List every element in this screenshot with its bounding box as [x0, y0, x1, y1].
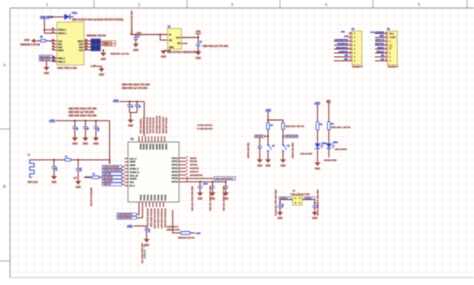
- svg-text:3: 3: [350, 40, 351, 42]
- svg-text:CHIP-EN: CHIP-EN: [103, 174, 111, 176]
- svg-text:+3V3: +3V3: [196, 233, 202, 235]
- svg-text:B6: B6: [85, 39, 87, 41]
- svg-text:SMD-0402 100nF X7R 20%: SMD-0402 100nF X7R 20%: [122, 84, 150, 87]
- svg-text:KEY-EN: KEY-EN: [255, 136, 263, 138]
- svg-text:SMD-0402 100nF X7R 20%: SMD-0402 100nF X7R 20%: [191, 186, 194, 211]
- svg-text:GND: GND: [197, 199, 202, 201]
- svg-text:GND: GND: [312, 218, 317, 220]
- svg-text:VDD33: VDD33: [142, 144, 144, 150]
- svg-text:VDD33: VDD33: [164, 144, 166, 150]
- svg-text:TVS1: TVS1: [72, 13, 78, 15]
- svg-text:GND-PAD2: GND-PAD2: [40, 59, 51, 62]
- svg-text:LED2: LED2: [333, 142, 339, 144]
- svg-text:LYTN8-GPIO13: LYTN8-GPIO13: [197, 129, 213, 131]
- svg-text:GPIO1: GPIO1: [172, 158, 179, 160]
- svg-text:GPIO1: GPIO1: [172, 175, 179, 177]
- svg-text:GPIO1: GPIO1: [172, 168, 179, 170]
- svg-text:GPIO2: GPIO2: [142, 195, 144, 201]
- svg-text:A4: A4: [52, 41, 54, 44]
- svg-text:VDD33: VDD33: [161, 144, 163, 150]
- svg-text:+3V3: +3V3: [196, 31, 202, 33]
- svg-text:GPIO11-PWM-CH2: GPIO11-PWM-CH2: [155, 116, 157, 135]
- svg-text:VBUS_1: VBUS_1: [58, 30, 67, 32]
- svg-text:B6: B6: [85, 42, 87, 44]
- svg-text:XT32K-IN-GPIO16: XT32K-IN-GPIO16: [103, 167, 119, 169]
- svg-text:Header-8: Header-8: [352, 65, 363, 68]
- svg-text:GND: GND: [277, 218, 282, 220]
- svg-text:SMD-0402 1uF X7R 20%: SMD-0402 1uF X7R 20%: [69, 111, 95, 114]
- svg-text:VDDIO-3V3-MAIN: VDDIO-3V3-MAIN: [161, 117, 164, 134]
- svg-text:2: 2: [385, 36, 386, 38]
- svg-text:6: 6: [187, 173, 188, 175]
- svg-text:GND: GND: [76, 187, 81, 189]
- svg-text:XT32K_N: XT32K_N: [130, 172, 140, 174]
- svg-text:SMD0402-10K: SMD0402-10K: [167, 229, 181, 232]
- svg-text:GPIO2: GPIO2: [156, 195, 158, 201]
- svg-text:EN: EN: [169, 40, 172, 42]
- svg-text:XT32K-O: XT32K-O: [280, 198, 289, 200]
- svg-text:VCC: VCC: [390, 33, 395, 35]
- svg-text:A4: A4: [52, 47, 54, 50]
- svg-text:7: 7: [350, 55, 351, 57]
- svg-text:GND: GND: [133, 49, 139, 52]
- svg-text:SMD0402-2.1nH 5%: SMD0402-2.1nH 5%: [89, 188, 92, 207]
- svg-text:GND: GND: [51, 182, 56, 184]
- svg-text:GND: GND: [99, 74, 105, 77]
- svg-text:GND: GND: [169, 47, 174, 49]
- svg-text:DRGB-PWM: DRGB-PWM: [324, 160, 337, 162]
- svg-text:GPIO2: GPIO2: [139, 195, 141, 201]
- svg-text:GND_1: GND_1: [58, 58, 66, 60]
- svg-text:GPIO29-FLASH-SDO: GPIO29-FLASH-SDO: [160, 209, 163, 229]
- svg-text:SMD-0201 1.2K 5%: SMD-0201 1.2K 5%: [331, 127, 351, 129]
- svg-text:8: 8: [350, 59, 351, 61]
- svg-text:GND: GND: [101, 58, 107, 61]
- svg-text:GND: GND: [196, 57, 202, 60]
- svg-text:8: 8: [385, 59, 386, 61]
- svg-text:SMD-0402 22pF C0G 5% NC: SMD-0402 22pF C0G 5% NC: [316, 190, 319, 217]
- svg-text:GPIO14-I2C-SDA: GPIO14-I2C-SDA: [149, 117, 152, 134]
- svg-text:VDD33: VDD33: [148, 144, 150, 150]
- svg-text:VDD33-RF-LNA: VDD33-RF-LNA: [139, 119, 142, 134]
- svg-text:SMD0402 10K 5%: SMD0402 10K 5%: [178, 236, 195, 239]
- svg-text:GPIO12-I2C-SCL: GPIO12-I2C-SCL: [152, 118, 154, 135]
- svg-text:UART-TX: UART-TX: [190, 170, 200, 173]
- svg-text:GPIO15: GPIO15: [190, 165, 198, 167]
- svg-text:GPIO17-ADC1-IN: GPIO17-ADC1-IN: [142, 117, 145, 134]
- svg-text:UART-BOOT: UART-BOOT: [167, 226, 180, 229]
- svg-text:GPIO30-FLASH-SDI: GPIO30-FLASH-SDI: [163, 209, 166, 228]
- svg-text:USB-VBUS-5V-IN-500MA: USB-VBUS-5V-IN-500MA: [130, 11, 133, 35]
- svg-text:GPIO28-FLASH-CLK: GPIO28-FLASH-CLK: [156, 209, 159, 229]
- svg-text:VDD33: VDD33: [145, 144, 147, 150]
- svg-text:3: 3: [187, 163, 188, 165]
- svg-text:VDD33: VDD33: [158, 144, 160, 150]
- svg-text:ANT-2.4G: ANT-2.4G: [28, 181, 39, 184]
- svg-text:6: 6: [385, 51, 386, 53]
- svg-text:USB-DP/GPIO3: USB-DP/GPIO3: [118, 218, 132, 220]
- svg-text:CAL_P: CAL_P: [130, 157, 138, 160]
- svg-text:VDD33: VDD33: [152, 144, 154, 150]
- svg-text:GPIO16-ADC0-IN: GPIO16-ADC0-IN: [145, 117, 148, 134]
- svg-text:VSS: VSS: [130, 182, 135, 184]
- svg-text:SMD-0402 100nF X7R 20%: SMD-0402 100nF X7R 20%: [209, 186, 212, 211]
- svg-text:VBAT-33: VBAT-33: [103, 183, 111, 186]
- svg-text:GND: GND: [280, 166, 285, 168]
- svg-text:VDD33: VDD33: [155, 144, 157, 150]
- svg-text:VBUS_2: VBUS_2: [58, 33, 67, 35]
- svg-text:GPIO3-LED-DRV: GPIO3-LED-DRV: [165, 118, 167, 135]
- svg-text:SMD-0402 100nF X7R 20%: SMD-0402 100nF X7R 20%: [222, 186, 225, 211]
- svg-text:GND_2: GND_2: [58, 61, 66, 63]
- svg-text:LED-R-0603: LED-R-0603: [335, 149, 348, 151]
- svg-text:GPIO20-JTAG-TCK: GPIO20-JTAG-TCK: [146, 209, 149, 228]
- svg-text:GND: GND: [257, 166, 262, 168]
- svg-text:SMD-0402 100nF X7R 20%: SMD-0402 100nF X7R 20%: [69, 107, 97, 110]
- svg-text:SMD-0402 1uF X7R 20%: SMD-0402 1uF X7R 20%: [122, 87, 148, 90]
- svg-text:SMD-KEY-3X4X2: SMD-KEY-3X4X2: [291, 143, 294, 160]
- svg-text:GND: GND: [391, 37, 396, 39]
- svg-text:A: A: [3, 63, 6, 68]
- svg-text:SMD-SOD123 SOD-123 (ESD-PROTEC: SMD-SOD123 SOD-123 (ESD-PROTECT-DIODE): [72, 20, 124, 22]
- svg-text:GPIO1: GPIO1: [172, 165, 179, 167]
- svg-text:LYTN2-GPIO12: LYTN2-GPIO12: [197, 125, 213, 127]
- svg-text:GPIO1: GPIO1: [172, 171, 179, 173]
- svg-text:5: 5: [350, 47, 351, 49]
- svg-text:1: 1: [350, 32, 351, 34]
- svg-text:VBRF: VBRF: [130, 162, 137, 164]
- svg-text:GPIO1: GPIO1: [172, 182, 179, 184]
- svg-text:VDD-RF33: VDD-RF33: [103, 181, 112, 183]
- svg-text:RF-ANT-IN: RF-ANT-IN: [103, 176, 113, 179]
- svg-text:SBU2: SBU2: [77, 41, 83, 43]
- svg-text:Header-8: Header-8: [388, 65, 399, 68]
- svg-text:GPIO2: GPIO2: [153, 195, 155, 201]
- svg-text:GPIO10-PWM-CH1: GPIO10-PWM-CH1: [158, 116, 160, 135]
- svg-text:SMD-0402 100nF X7R 20%: SMD-0402 100nF X7R 20%: [69, 114, 97, 117]
- svg-text:UART-RX: UART-RX: [190, 167, 200, 170]
- svg-text:VDD33: VDD33: [190, 158, 198, 160]
- svg-text:7: 7: [385, 55, 386, 57]
- svg-text:GPIO2: GPIO2: [149, 195, 151, 201]
- svg-text:2: 2: [187, 160, 188, 162]
- svg-text:GND: GND: [24, 39, 30, 42]
- svg-text:B: B: [3, 184, 6, 189]
- svg-text:A4: A4: [52, 44, 54, 47]
- svg-text:5: 5: [385, 47, 386, 49]
- svg-text:USB-TYPE-C-16P: USB-TYPE-C-16P: [57, 67, 77, 70]
- svg-text:B6: B6: [85, 48, 87, 50]
- svg-text:1.0-10mil: 1.0-10mil: [143, 250, 145, 259]
- svg-text:LED-B-0603: LED-B-0603: [300, 153, 313, 155]
- svg-text:USB1-GPIO9/SPIV1: USB1-GPIO9/SPIV1: [215, 178, 234, 180]
- svg-text:1: 1: [385, 32, 386, 34]
- svg-text:GPIO2: GPIO2: [146, 195, 148, 201]
- svg-text:XT32K-OUT-GPIO17: XT32K-OUT-GPIO17: [103, 170, 121, 172]
- svg-text:XT32K_P: XT32K_P: [130, 169, 140, 171]
- svg-text:GPIO14: GPIO14: [190, 160, 198, 163]
- svg-text:GND: GND: [161, 56, 167, 59]
- svg-text:6: 6: [350, 51, 351, 53]
- svg-text:5: 5: [187, 170, 188, 172]
- svg-text:C-: C-: [143, 245, 145, 247]
- svg-text:GND: GND: [72, 143, 78, 146]
- svg-text:VDD33: VDD33: [139, 144, 141, 150]
- svg-text:RF_P: RF_P: [130, 186, 136, 188]
- svg-text:10uF: 10uF: [137, 32, 142, 34]
- svg-text:GPIO21-JTAG-TMS: GPIO21-JTAG-TMS: [149, 209, 152, 228]
- svg-text:SBU1: SBU1: [58, 50, 64, 52]
- svg-text:GPIO2: GPIO2: [163, 195, 165, 201]
- svg-text:GND: GND: [265, 166, 270, 168]
- svg-text:VDD33: VDD33: [130, 179, 138, 181]
- svg-text:1: 1: [187, 156, 188, 158]
- svg-text:GND: GND: [128, 125, 134, 128]
- svg-text:3: 3: [385, 40, 386, 42]
- svg-text:SMD-0402 22pF C0G 5% NC: SMD-0402 22pF C0G 5% NC: [274, 190, 277, 217]
- svg-text:GPIO27-FLASH-CSN: GPIO27-FLASH-CSN: [153, 209, 156, 229]
- svg-text:SMD-0201 10K 5%: SMD-0201 10K 5%: [285, 126, 304, 128]
- svg-text:OUT: OUT: [176, 37, 181, 39]
- svg-text:GND-PAD1: GND-PAD1: [40, 55, 51, 58]
- svg-text:XT32K-I: XT32K-I: [305, 198, 313, 200]
- svg-text:USB-D_N: USB-D_N: [103, 45, 112, 47]
- svg-text:B6: B6: [85, 45, 87, 47]
- svg-text:GPIO1: GPIO1: [172, 178, 179, 180]
- svg-text:+3V3: +3V3: [203, 184, 209, 186]
- svg-text:GND: GND: [315, 168, 321, 171]
- svg-text:2: 2: [350, 36, 351, 38]
- svg-text:GPIO1: GPIO1: [172, 161, 179, 163]
- svg-text:SMD0603 22R 5%: SMD0603 22R 5%: [87, 35, 107, 37]
- svg-text:VBGP: VBGP: [130, 165, 137, 167]
- svg-text:SMD0402 5.1K 5%: SMD0402 5.1K 5%: [20, 44, 40, 47]
- svg-text:GND: GND: [344, 36, 349, 38]
- svg-text:GPIO2: GPIO2: [160, 195, 162, 201]
- svg-text:VDD_A2: VDD_A2: [130, 174, 139, 177]
- svg-text:GPIO8/SPIV0: GPIO8/SPIV0: [190, 175, 204, 177]
- svg-text:GND: GND: [93, 143, 99, 146]
- svg-text:GPIO8-BOOT: GPIO8-BOOT: [286, 136, 299, 138]
- svg-text:SMD-0402 1uF X7R 20%: SMD-0402 1uF X7R 20%: [203, 45, 229, 48]
- svg-text:GND: GND: [44, 72, 50, 75]
- svg-text:USB-DM/GPIO2: USB-DM/GPIO2: [118, 214, 132, 216]
- svg-text:SMD0402 1.0K 5%: SMD0402 1.0K 5%: [110, 52, 129, 55]
- svg-text:USB-D_P: USB-D_P: [103, 42, 112, 44]
- svg-text:GND: GND: [83, 143, 89, 146]
